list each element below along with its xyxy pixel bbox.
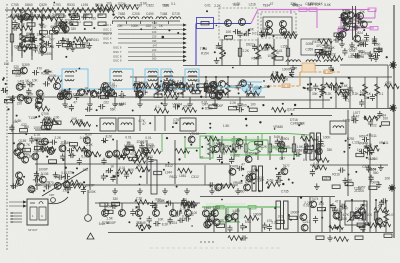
transformer IF-can cyan <box>110 69 133 89</box>
resistor R149 <box>131 158 145 163</box>
svg-text:47: 47 <box>294 66 298 70</box>
svg-text:68: 68 <box>302 133 306 137</box>
wire magenta h4 <box>356 27 374 29</box>
bus wire top-left2 <box>8 16 55 18</box>
junction <box>120 155 123 158</box>
capacitor C59 <box>141 90 148 95</box>
transistor Q90 <box>246 175 253 182</box>
svg-text:47: 47 <box>276 51 280 55</box>
bus wire tuner <box>112 20 180 22</box>
resistor R138 <box>364 116 378 121</box>
resistor R87 <box>328 56 342 61</box>
wire drop <box>239 39 241 66</box>
capacitor C42 <box>21 82 26 89</box>
transistor Q76 <box>188 136 195 143</box>
svg-text:1000P: 1000P <box>107 221 116 225</box>
capacitor C41 <box>22 96 29 101</box>
junction <box>346 184 348 186</box>
resistor R177 <box>369 186 377 189</box>
wire vert rail <box>31 12 33 60</box>
svg-text:100: 100 <box>194 79 200 83</box>
svg-text:330: 330 <box>36 141 42 145</box>
resistor R33 <box>220 47 225 59</box>
svg-text:L196: L196 <box>81 3 88 7</box>
transistor Q55 <box>240 80 247 87</box>
resistor R14 <box>70 22 78 25</box>
junction <box>335 207 337 209</box>
resistor R187 <box>136 224 150 229</box>
svg-text:100K: 100K <box>88 190 96 194</box>
wire green h6 <box>230 154 300 156</box>
capacitor C22 <box>322 43 329 48</box>
capacitor C84 <box>67 148 74 153</box>
transistor Q24 <box>62 26 69 33</box>
wire drop <box>281 136 283 160</box>
svg-text:470: 470 <box>106 154 112 158</box>
svg-text:47: 47 <box>270 2 274 6</box>
resistor R168 <box>66 180 80 185</box>
resistor R86 <box>315 49 323 52</box>
svg-text:1000P: 1000P <box>85 184 94 188</box>
svg-text:0.1: 0.1 <box>171 2 176 6</box>
junction <box>320 201 322 203</box>
junction <box>275 168 277 170</box>
resistor R22 <box>40 33 45 45</box>
junction <box>63 159 65 161</box>
svg-text:0.1: 0.1 <box>152 53 156 57</box>
wire vert right2 <box>369 133 371 232</box>
resistor R150 <box>146 149 160 154</box>
svg-text:0.01: 0.01 <box>119 166 125 170</box>
wire left-mid <box>35 129 90 131</box>
junction <box>180 210 182 212</box>
svg-text:10K: 10K <box>71 117 78 121</box>
junction <box>209 123 211 125</box>
resistor R189 <box>244 216 258 221</box>
svg-text:4.7K: 4.7K <box>34 133 41 137</box>
svg-text:L463: L463 <box>204 206 211 210</box>
capacitor C52 <box>98 87 105 92</box>
junction <box>364 116 366 118</box>
svg-text:8.2K: 8.2K <box>82 92 89 96</box>
svg-text:5.6K: 5.6K <box>218 219 225 223</box>
ground <box>53 172 59 178</box>
resistor R172 <box>136 167 150 172</box>
resistor R92 <box>259 44 273 49</box>
transistor Q48 <box>65 93 72 100</box>
resistor R100 <box>109 93 117 96</box>
resistor R103 <box>162 89 176 94</box>
transistor Q83 <box>28 186 35 193</box>
wire drop <box>293 136 295 160</box>
resistor R114 <box>247 94 255 97</box>
capacitor C110 <box>65 185 72 190</box>
svg-text:.047: .047 <box>48 38 54 42</box>
resistor R9 <box>24 15 38 20</box>
svg-text:5.6K: 5.6K <box>245 220 252 224</box>
wire magenta h2 <box>356 9 370 11</box>
transistor Q47 <box>90 91 97 98</box>
wire vert rail <box>174 140 176 184</box>
wire vert bottom <box>329 197 331 232</box>
junction <box>376 145 378 147</box>
junction <box>330 97 332 99</box>
wire stub <box>189 97 191 101</box>
svg-text:2.2K: 2.2K <box>158 199 165 203</box>
junction <box>205 76 207 78</box>
transistor Q85 <box>54 183 61 190</box>
junction <box>348 77 350 79</box>
resistor R79 <box>76 45 84 48</box>
svg-text:10K: 10K <box>226 30 233 34</box>
transformer T-vert1 <box>276 201 281 229</box>
junction <box>68 13 71 16</box>
svg-text:0.1: 0.1 <box>137 221 142 225</box>
junction <box>294 104 296 106</box>
wire vert bottom <box>297 197 299 232</box>
svg-text:47: 47 <box>205 80 209 84</box>
resistor R91 <box>225 36 233 39</box>
potentiometer VR-bright <box>85 215 92 222</box>
junction <box>341 40 343 42</box>
wire drop <box>221 136 223 160</box>
svg-text:220: 220 <box>213 207 219 211</box>
capacitor C90 <box>145 148 150 155</box>
junction <box>166 201 168 203</box>
svg-text:L485: L485 <box>233 209 240 213</box>
resistor R88 <box>374 48 382 51</box>
ground <box>60 37 66 43</box>
transistor Q95 <box>231 213 238 220</box>
wire dashed faint <box>150 247 280 249</box>
wire drop <box>138 203 140 210</box>
junction <box>35 116 37 118</box>
svg-text:C205: C205 <box>132 12 140 16</box>
capacitor C48 <box>61 92 66 99</box>
svg-text:L216: L216 <box>249 3 256 7</box>
svg-text:OSC 1: OSC 1 <box>103 23 112 27</box>
speaker sub1 <box>30 207 37 220</box>
coil L11 <box>183 123 194 125</box>
coil T-IF <box>148 71 157 81</box>
svg-text:10K: 10K <box>117 24 124 28</box>
wire green h5 <box>185 147 200 149</box>
capacitor C10 <box>33 45 38 52</box>
junction <box>363 29 365 31</box>
wire left rail <box>12 95 14 185</box>
capacitor C147 <box>330 203 335 210</box>
wire stub <box>64 97 66 101</box>
ground <box>216 43 222 49</box>
junction <box>318 88 320 90</box>
junction <box>14 150 16 152</box>
svg-text:68: 68 <box>72 145 76 149</box>
capacitor C127 <box>150 201 155 208</box>
junction <box>160 80 162 82</box>
resistor R67 <box>384 211 389 223</box>
svg-text:560: 560 <box>152 57 157 61</box>
capacitor C57 <box>190 82 195 89</box>
capacitor C40 <box>26 88 31 95</box>
resistor R15 <box>84 14 92 17</box>
resistor R95 <box>13 70 21 73</box>
junction <box>242 175 243 176</box>
transformer can <box>330 121 346 134</box>
wire green h1 <box>206 133 288 135</box>
junction <box>121 91 122 92</box>
junction <box>381 222 382 223</box>
svg-text:.022: .022 <box>371 124 377 128</box>
wire video magenta h <box>259 9 356 11</box>
svg-text:VR685: VR685 <box>233 181 243 185</box>
svg-text:0.01: 0.01 <box>125 136 131 140</box>
ground <box>310 65 316 71</box>
svg-text:560: 560 <box>264 47 270 51</box>
capacitor C39 <box>27 82 34 87</box>
capacitor C118 <box>276 172 281 179</box>
wire magenta v1 <box>316 10 318 29</box>
resistor R156 <box>301 136 315 141</box>
svg-text:CRT: CRT <box>49 193 55 197</box>
svg-text:68: 68 <box>127 142 131 146</box>
svg-text:33K: 33K <box>72 93 79 97</box>
resistor R109 <box>192 90 200 93</box>
capacitor C58 <box>248 82 253 89</box>
junction <box>148 224 150 226</box>
wire <box>118 28 186 30</box>
transistor Q84 <box>16 172 23 179</box>
resistor R195 <box>329 225 343 230</box>
svg-text:0.1: 0.1 <box>379 92 384 96</box>
junction <box>75 43 77 45</box>
wire drop <box>339 200 341 232</box>
resistor R107 <box>163 81 177 86</box>
junction <box>46 156 48 158</box>
wire stub <box>154 21 156 24</box>
transistor Q5 <box>266 28 273 35</box>
wire legend tick <box>11 215 13 217</box>
svg-text:R267: R267 <box>85 133 93 137</box>
border wire right <box>393 5 395 238</box>
svg-text:T136: T136 <box>28 116 35 120</box>
junction <box>291 113 293 115</box>
capacitor C76 <box>9 125 14 132</box>
svg-text:R528: R528 <box>252 56 260 60</box>
wire stub <box>114 97 116 101</box>
svg-text:Q318: Q318 <box>287 108 295 112</box>
junction <box>364 118 366 120</box>
junction <box>357 45 359 47</box>
resistor R147 <box>69 143 77 146</box>
wire vert rail <box>51 33 53 60</box>
capacitor C43 <box>43 81 50 86</box>
resistor R178 <box>332 185 340 188</box>
capacitor C38 <box>43 69 50 74</box>
svg-text:100: 100 <box>4 62 10 66</box>
svg-text:560: 560 <box>373 171 379 175</box>
resistor R83 <box>323 51 331 54</box>
transformer IF-can cyan <box>62 69 88 89</box>
capacitor C5 <box>16 13 23 18</box>
resistor R202 <box>355 236 363 239</box>
transistor Q81 <box>17 179 24 186</box>
junction <box>71 23 73 25</box>
resistor R24 <box>110 5 124 10</box>
junction <box>168 162 170 164</box>
svg-text:47: 47 <box>367 134 371 138</box>
svg-text:8.2K: 8.2K <box>106 135 113 139</box>
junction <box>132 110 134 112</box>
capacitor C60 <box>236 83 241 90</box>
wire <box>118 33 186 35</box>
transistor Q94 <box>206 219 213 226</box>
svg-text:33K: 33K <box>297 122 304 126</box>
resistor R151 <box>116 154 130 159</box>
transistor Q8 <box>357 13 364 20</box>
resistor R27 <box>299 8 307 11</box>
resistor R123 <box>335 90 349 95</box>
capacitor C106 <box>31 186 36 193</box>
transformer IF-can cyan <box>185 69 199 89</box>
resistor R65 <box>362 212 365 220</box>
junction <box>273 35 275 37</box>
resistor R166 <box>365 146 379 151</box>
junction <box>386 56 388 58</box>
ground <box>314 183 320 189</box>
svg-text:.047: .047 <box>152 44 158 48</box>
svg-text:T802: T802 <box>122 4 129 8</box>
svg-text:0.01: 0.01 <box>61 171 67 175</box>
capacitor C78 <box>351 114 356 121</box>
junction <box>345 96 347 98</box>
svg-text:10K: 10K <box>12 120 19 124</box>
junction <box>292 76 294 78</box>
svg-text:220: 220 <box>26 32 32 36</box>
junction <box>2 79 4 81</box>
junction <box>368 224 370 226</box>
resistor R128 <box>182 108 196 113</box>
wire drop <box>273 39 275 66</box>
capacitor C138 <box>209 211 216 216</box>
junction <box>107 9 109 11</box>
ground <box>137 101 143 107</box>
resistor R41 <box>204 84 207 92</box>
junction <box>212 152 214 154</box>
speaker sub2 <box>39 207 46 220</box>
junction <box>231 218 233 220</box>
capacitor C91 <box>139 143 144 150</box>
resistor R46 <box>321 84 326 96</box>
resistor R72 <box>48 16 62 21</box>
junction <box>321 217 323 219</box>
capacitor C112 <box>81 187 86 194</box>
wire drop <box>245 136 247 160</box>
junction <box>191 225 192 226</box>
resistor R17 <box>98 14 106 17</box>
capacitor C33 <box>262 32 269 37</box>
transistor Q37 <box>25 97 32 104</box>
svg-text:1.5K: 1.5K <box>375 204 382 208</box>
transistor Q46 <box>104 86 111 93</box>
transistor Q9 <box>337 33 344 40</box>
junction <box>229 145 231 147</box>
capacitor C140 <box>240 223 245 230</box>
transistor Q30 <box>343 24 350 31</box>
junction <box>210 185 212 187</box>
svg-text:47: 47 <box>200 156 204 160</box>
wire relay diag <box>347 204 364 222</box>
junction <box>203 47 205 49</box>
capacitor C45 <box>32 70 39 75</box>
capacitor C14 <box>56 41 61 48</box>
svg-text:0.01: 0.01 <box>272 71 278 75</box>
resistor R139 <box>42 146 56 151</box>
resistor R163 <box>304 150 312 153</box>
svg-text:5.6K: 5.6K <box>341 84 348 88</box>
capacitor C82 <box>50 140 57 145</box>
transistor Q87 <box>215 184 222 191</box>
capacitor C64 <box>319 87 324 94</box>
wire drop F2 <box>229 165 231 185</box>
junction <box>238 92 240 94</box>
transistor Q68 <box>17 152 24 159</box>
capacitor C8 <box>12 26 19 31</box>
resistor R2 <box>27 8 41 13</box>
capacitor C128 <box>181 198 186 205</box>
junction <box>44 70 46 72</box>
wire <box>128 51 186 53</box>
junction <box>379 125 381 127</box>
junction <box>336 217 338 219</box>
junction <box>35 47 37 49</box>
transistor Q23 <box>52 26 59 33</box>
svg-text:VR501: VR501 <box>279 137 289 141</box>
capacitor C26 <box>372 39 377 46</box>
svg-text:47: 47 <box>336 87 340 91</box>
transistor Q96 <box>202 210 209 217</box>
wire drop <box>221 39 223 66</box>
junction <box>177 32 179 34</box>
wire drop <box>135 77 137 98</box>
transformer IF-can cyan <box>145 69 158 89</box>
junction <box>201 146 203 148</box>
svg-text:L344: L344 <box>165 170 172 174</box>
junction <box>342 82 344 84</box>
capacitor C74 <box>173 104 180 109</box>
resistor R142 <box>87 152 101 157</box>
resistor R119 <box>271 74 285 79</box>
svg-text:2.2K: 2.2K <box>55 136 62 140</box>
transistor Q7 <box>343 17 350 24</box>
resistor R30 <box>370 27 378 30</box>
capacitor C46 <box>67 89 72 96</box>
junction <box>165 205 167 207</box>
capacitor C100 <box>318 139 323 146</box>
capacitor C30 <box>353 53 360 58</box>
junction <box>64 9 66 11</box>
transformer T-vert2 <box>284 201 289 229</box>
junction <box>142 170 144 172</box>
junction <box>209 127 211 129</box>
svg-text:68: 68 <box>16 22 20 26</box>
junction <box>43 190 45 192</box>
svg-text:330: 330 <box>364 96 370 100</box>
junction <box>349 219 351 221</box>
svg-text:33K: 33K <box>359 10 366 14</box>
wire legend <box>10 215 22 217</box>
resistor R55 <box>280 144 283 152</box>
svg-text:2.2K: 2.2K <box>243 49 250 53</box>
